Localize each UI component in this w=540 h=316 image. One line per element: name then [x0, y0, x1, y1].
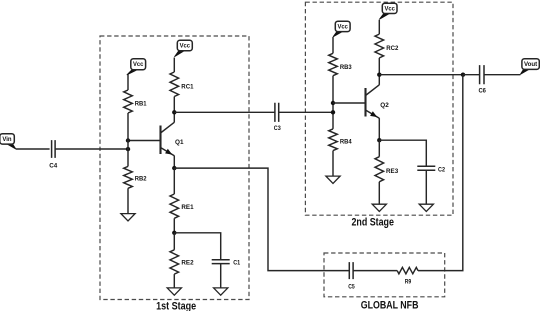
resistor RE3: [375, 157, 384, 182]
svg-text:GLOBAL NFB: GLOBAL NFB: [361, 300, 419, 311]
port Vout: [520, 59, 539, 75]
label R9: [405, 279, 412, 286]
wire emitter node to RE3: [378, 140, 380, 157]
label RE2: [181, 260, 193, 267]
resistor RE1: [170, 194, 179, 218]
ground (C2): [419, 204, 433, 211]
wire RE2 to ground: [173, 274, 175, 288]
svg-text:Vcc: Vcc: [180, 42, 191, 49]
svg-text:C2: C2: [438, 167, 445, 174]
label RE1: [181, 204, 193, 211]
junction C3 node: [331, 110, 335, 114]
resistor RB2: [124, 166, 133, 188]
wire C5 to R9: [353, 270, 397, 272]
wire collector node to C3: [174, 111, 275, 113]
svg-text:Vcc: Vcc: [338, 23, 349, 30]
svg-text:1st Stage: 1st Stage: [156, 301, 196, 312]
wire node to C1: [174, 233, 220, 260]
label Q1: [175, 139, 184, 146]
svg-text:C3: C3: [274, 125, 281, 132]
label C5: [348, 284, 355, 291]
capacitor C2: [417, 166, 435, 170]
svg-text:RB2: RB2: [135, 176, 147, 183]
junction RE1/RE2/C1 node: [172, 231, 176, 235]
label 2nd Stage: [351, 217, 394, 229]
label C3: [274, 125, 281, 132]
label C6: [478, 88, 486, 95]
svg-text:RE3: RE3: [386, 168, 398, 175]
wire RE1 to RE2 node: [173, 218, 175, 233]
label RB1: [135, 100, 147, 107]
resistor R9: [397, 267, 418, 273]
wire Vcc to RC2: [378, 20, 380, 34]
wire Q1 emitter: [173, 156, 175, 169]
wire C6 to Vout: [484, 74, 520, 76]
junction Q2 base node: [331, 101, 335, 105]
wire RB3 to base node: [332, 76, 334, 129]
svg-text:RE2: RE2: [181, 260, 193, 267]
svg-text:2nd Stage: 2nd Stage: [351, 217, 394, 229]
power Vcc (RC2): [379, 3, 397, 19]
resistor RB4: [329, 129, 338, 151]
label RC2: [386, 45, 398, 52]
wire Q2 collector: [378, 75, 380, 85]
junction Q2 emitter node: [377, 138, 381, 142]
dashed box GLOBAL NFB: [324, 253, 445, 297]
label RB2: [135, 176, 147, 183]
svg-text:Vout: Vout: [524, 61, 537, 68]
capacitor C4: [52, 140, 56, 158]
junction output node: [461, 73, 465, 77]
svg-text:Vin: Vin: [2, 136, 11, 143]
ground (C1): [214, 288, 228, 295]
svg-text:C1: C1: [233, 260, 240, 267]
label Q2: [380, 102, 389, 109]
port Vin: [0, 134, 16, 150]
wire Q2 emitter: [378, 118, 380, 140]
label C4: [49, 162, 57, 169]
capacitor C1: [212, 260, 230, 264]
power Vcc (RB3): [333, 21, 350, 37]
wire Q1 collector: [173, 112, 175, 122]
wire emitter node to C2: [379, 140, 426, 166]
svg-text:RC2: RC2: [386, 45, 398, 52]
resistor RC1: [170, 72, 179, 97]
label C2: [438, 167, 445, 174]
wire RC2 to collector node: [378, 58, 380, 75]
label RB4: [340, 138, 352, 145]
wire RC1 to collector node: [173, 97, 175, 113]
transistor Q2: [366, 85, 380, 118]
resistor RC2: [375, 34, 384, 58]
svg-text:C5: C5: [348, 284, 355, 291]
wire output node to C6: [463, 74, 479, 76]
wire emitter node to RE1: [173, 168, 175, 194]
wire C3 to stage2 node: [279, 111, 333, 113]
power Vcc (RC1): [174, 40, 192, 57]
svg-text:Vcc: Vcc: [133, 61, 144, 68]
wire Vcc to RB1: [127, 75, 129, 91]
wire RB4 to ground: [332, 151, 334, 177]
ground (RB2): [121, 214, 135, 221]
wire Vcc to RB3: [332, 37, 334, 53]
label C1: [233, 260, 240, 267]
svg-text:Vcc: Vcc: [385, 5, 396, 12]
resistor RB3: [329, 53, 338, 75]
wire Vin to C4: [16, 148, 50, 150]
wire C2 to ground: [425, 170, 427, 204]
svg-text:RB1: RB1: [135, 100, 147, 107]
junction Q2 collector node: [377, 73, 381, 77]
label RC1: [181, 84, 193, 91]
junction input node: [126, 147, 130, 151]
junction Q1 emitter node: [172, 166, 176, 170]
svg-text:RE1: RE1: [181, 204, 193, 211]
svg-text:C4: C4: [49, 162, 57, 169]
label 1st Stage: [156, 301, 196, 313]
dashed box 1st Stage: [100, 36, 249, 300]
junction base node: [126, 138, 130, 142]
wire RB2 to ground: [127, 188, 129, 213]
transistor Q1: [161, 122, 175, 155]
wire C1 to ground: [220, 264, 222, 288]
wire C4 to input node: [55, 148, 128, 150]
ground (RE2): [167, 288, 181, 295]
wire Q1 emitter to NFB: [174, 168, 349, 271]
label RE3: [386, 168, 398, 175]
dashed box 2nd Stage: [305, 2, 453, 215]
svg-text:Q2: Q2: [380, 102, 389, 109]
wire base node to Q1 base: [128, 140, 161, 142]
wire R9 to output node: [418, 75, 463, 271]
resistor RB1: [124, 90, 133, 113]
capacitor C6: [480, 65, 484, 84]
svg-text:RB3: RB3: [340, 64, 352, 71]
ground (RE3): [372, 204, 386, 211]
svg-text:Q1: Q1: [175, 139, 184, 146]
ground (RB4): [326, 176, 340, 183]
label RB3: [340, 64, 352, 71]
wire Vcc to RC1: [173, 58, 175, 73]
wire RE3 to ground: [378, 182, 380, 204]
label GLOBAL NFB: [361, 300, 419, 312]
wire RE2 top lead: [173, 233, 175, 250]
capacitor C3: [275, 103, 279, 122]
svg-text:RB4: RB4: [340, 138, 352, 145]
power Vcc (RB1): [127, 59, 146, 75]
svg-text:RC1: RC1: [181, 84, 193, 91]
junction Q1 collector node: [172, 110, 176, 114]
svg-text:C6: C6: [478, 88, 486, 95]
svg-text:R9: R9: [405, 279, 412, 286]
wire base node to Q2 base: [333, 102, 366, 104]
wire collector node to output node: [379, 74, 463, 76]
wire RB1 to divider node: [127, 113, 129, 166]
capacitor C5: [349, 262, 353, 279]
resistor RE2: [170, 250, 179, 274]
